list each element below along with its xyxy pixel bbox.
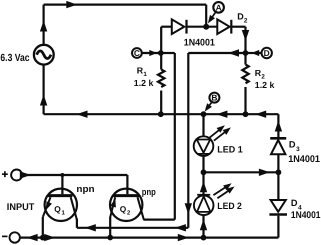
- wire R2 bottom lead: [244, 87, 246, 114]
- junction LED1 bottom: [201, 169, 207, 175]
- svg-text:1N4001: 1N4001: [184, 38, 216, 49]
- transistor Q1: [43, 189, 77, 221]
- svg-text:1N4001: 1N4001: [291, 210, 321, 221]
- svg-text:LED 1: LED 1: [217, 144, 242, 154]
- node B: [202, 93, 219, 114]
- junction Q1 base tee: [60, 173, 64, 177]
- arrow collector line left 1: [85, 224, 96, 231]
- wire Q2 emitter vertical: [109, 217, 111, 237]
- arrow bottom rail right of Q1 emitter: [44, 234, 55, 241]
- svg-text:pnp: pnp: [142, 186, 156, 197]
- diode D4: [269, 200, 287, 215]
- wire input plus line: [22, 174, 127, 176]
- wire line2 horizontal to Q2 collector: [143, 219, 174, 221]
- label D2: [237, 11, 248, 24]
- svg-text:D: D: [264, 48, 270, 58]
- junction D3 D4: [276, 169, 282, 175]
- svg-text:D: D: [289, 139, 296, 149]
- AC source 6.3 Vac: [34, 45, 54, 65]
- svg-text:6.3 Vac: 6.3 Vac: [0, 53, 29, 64]
- arrow LED2 bottom up: [200, 219, 207, 230]
- wire vertical from diode row to node C junction: [160, 27, 162, 53]
- label R2: [255, 68, 275, 90]
- arrow bottom rail right near LED2: [178, 234, 189, 241]
- wire between D1 cathode and D2 anode: [187, 26, 218, 28]
- wire top-right vertical to diode junction: [205, 5, 207, 27]
- arrow line3 down: [185, 203, 192, 214]
- wire D2 cathode to right corner: [231, 26, 245, 28]
- arrow plus line right: [20, 171, 31, 178]
- node A: [205, 2, 223, 25]
- wire R2 top lead: [244, 53, 246, 65]
- wire LED1 to D3 link: [204, 171, 279, 173]
- junction R2 bottom: [243, 111, 249, 117]
- diode D1: [172, 19, 187, 34]
- wire right column top: [277, 114, 279, 138]
- LED 2: [194, 185, 233, 215]
- arrow top rail right: [66, 1, 77, 8]
- terminal input plus: [2, 170, 22, 181]
- wire top rail: [44, 3, 207, 5]
- wire node D stub: [246, 52, 262, 54]
- arrow LED2 top up: [200, 181, 207, 192]
- wire main middle rail: [44, 113, 279, 115]
- wire Q1 base lead: [61, 175, 63, 194]
- label Q2: [120, 204, 131, 217]
- wire LED column between LED1 and LED2: [202, 156, 204, 196]
- wire node C stub: [142, 52, 161, 54]
- wire line3 vertical D to Q1 collector line: [187, 53, 189, 228]
- arrow AC upper up: [40, 21, 47, 32]
- wire Q1 collector vertical: [76, 219, 78, 228]
- wire left vertical below AC source: [42, 65, 44, 115]
- junction node C: [158, 50, 164, 56]
- svg-text:INPUT: INPUT: [7, 202, 35, 213]
- wire LED column bottom: [202, 215, 204, 238]
- diode D2: [217, 19, 231, 34]
- arrow node C stub right: [149, 50, 157, 56]
- wire R1 bottom lead: [160, 91, 162, 115]
- wire Q2 base lead: [126, 175, 128, 194]
- junction LED2 bottom rail: [201, 235, 207, 241]
- svg-text:LED 2: LED 2: [217, 201, 242, 211]
- arrow bottom rail left near minus: [27, 234, 38, 241]
- svg-text:1.2 k: 1.2 k: [255, 80, 275, 90]
- svg-text:Q: Q: [54, 204, 61, 214]
- arrow right column up: [275, 121, 282, 132]
- junction Q2 emitter rail: [107, 235, 113, 241]
- node C: [132, 48, 142, 58]
- label D3: [289, 139, 300, 153]
- junction node D: [243, 50, 249, 56]
- arrow C-D line left: [228, 49, 239, 56]
- wire LED column top: [202, 114, 204, 136]
- svg-text:2: 2: [244, 18, 248, 25]
- arrow node D stub left: [252, 50, 260, 56]
- svg-text:1N4001: 1N4001: [288, 154, 320, 165]
- svg-text:1.2 k: 1.2 k: [134, 78, 154, 88]
- svg-text:npn: npn: [76, 183, 94, 194]
- svg-text:C: C: [134, 48, 140, 58]
- wire vertical from D2 corner down to node D junction: [244, 27, 246, 53]
- svg-text:3: 3: [296, 146, 300, 153]
- arrow rail left near source: [77, 111, 88, 118]
- arrow rail left right of B junction: [216, 111, 227, 118]
- wire diode row left segment: [161, 26, 172, 28]
- label D4: [291, 198, 302, 212]
- svg-text:D: D: [291, 198, 298, 208]
- wire right column bottom: [277, 216, 279, 238]
- wire Q1 emitter vertical: [42, 217, 44, 238]
- junction Q1 emitter rail: [40, 235, 46, 241]
- arrow collector line left 2: [175, 224, 186, 231]
- arrow rail left right of R2: [255, 111, 266, 118]
- svg-text:Q: Q: [120, 204, 127, 214]
- junction A-diode row: [203, 24, 209, 30]
- wire R1 top lead: [160, 53, 162, 70]
- transistor Q2: [110, 189, 144, 221]
- wire right column between D3 and D4: [277, 154, 279, 200]
- label R1: [134, 65, 154, 88]
- wire left vertical above AC source: [42, 5, 44, 45]
- node D: [262, 48, 272, 58]
- wire C junction to line2 corner: [161, 52, 175, 54]
- wire bottom rail: [20, 237, 278, 239]
- svg-text:B: B: [211, 93, 217, 103]
- arrow D2 column down: [242, 30, 249, 41]
- resistor R2 zigzag: [242, 65, 248, 84]
- wire line3 horizontal segment to node D junction: [188, 52, 245, 54]
- arrow LED1-D3 link right: [259, 169, 270, 176]
- resistor R1 zigzag: [158, 70, 164, 88]
- diode D3: [270, 138, 286, 154]
- junction node B rail: [201, 111, 207, 117]
- junction R1 bottom: [158, 111, 164, 117]
- svg-text:A: A: [216, 3, 222, 13]
- LED 1: [194, 127, 229, 156]
- wire line2 vertical C to Q2 collector level: [174, 53, 176, 220]
- terminal input minus: [2, 232, 20, 242]
- label Q1: [54, 204, 65, 217]
- wire Q1 collector line: [77, 227, 188, 229]
- arrow AC lower up: [40, 95, 47, 106]
